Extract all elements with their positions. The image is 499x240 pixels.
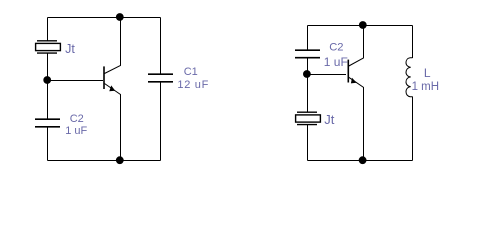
wire: right circuit right branch upper segment (412, 26, 414, 59)
transistor Q2 (right NPN) (348, 26, 363, 161)
wire: left circuit right branch lower segment (160, 83, 162, 161)
svg-text:1 uF: 1 uF (324, 55, 348, 69)
junction dot: left top rail / collector (116, 13, 124, 21)
wire: left circuit top rail (48, 17, 161, 19)
capacitor C1 (left) (148, 74, 173, 82)
svg-text:Jt: Jt (65, 42, 75, 56)
svg-text:C2: C2 (70, 113, 84, 125)
svg-text:C1: C1 (184, 66, 198, 78)
junction dot: right branch / base (303, 70, 311, 78)
wire: base wire of Q2 (308, 74, 347, 76)
junction dot: left bottom rail / emitter (116, 156, 124, 164)
junction dot: right top rail / collector (359, 21, 367, 29)
junction dot: left branch / base (43, 76, 51, 84)
wire: left circuit bottom rail (48, 160, 161, 162)
junction dot: right bottom rail / emitter (359, 156, 367, 164)
transistor Q1 (left NPN) (104, 18, 121, 161)
wire: left circuit left branch lower segment (47, 127, 49, 161)
wire: left circuit left branch middle segment (47, 53, 49, 119)
svg-text:1 mH: 1 mH (412, 81, 439, 93)
wire: left circuit left branch upper segment (47, 18, 49, 42)
wire: right circuit left branch segment between C2 and crystal (307, 59, 309, 113)
svg-text:L: L (424, 66, 431, 80)
wire: right circuit right branch lower segment (412, 97, 414, 161)
svg-text:12 uF: 12 uF (177, 79, 209, 91)
crystal Jt (right) (296, 112, 321, 124)
wire: right circuit top rail (308, 25, 413, 27)
wire: right circuit left branch lower segment (307, 125, 309, 161)
wire: left circuit right branch upper segment (160, 18, 162, 74)
crystal Jt (left) (36, 41, 61, 53)
wire: base wire of Q1 (48, 80, 104, 82)
wire: right circuit left branch upper segment (307, 26, 309, 50)
svg-text:1 uF: 1 uF (65, 125, 87, 137)
capacitor C2 (right) (295, 50, 320, 58)
capacitor C2 (left) (35, 119, 60, 127)
inductor L (406, 58, 413, 97)
wire: right circuit bottom rail (308, 160, 413, 162)
svg-text:Jt: Jt (324, 112, 335, 127)
svg-text:C2: C2 (329, 42, 343, 54)
